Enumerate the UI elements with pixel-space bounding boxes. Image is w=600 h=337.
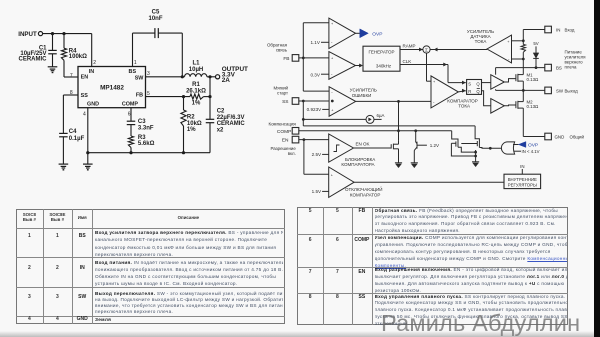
- svg-text:РЕГУЛЯТОРЫ: РЕГУЛЯТОРЫ: [508, 182, 537, 187]
- svg-text:COMP: COMP: [277, 129, 291, 135]
- svg-text:2.5V: 2.5V: [312, 152, 322, 157]
- svg-text:+: +: [331, 57, 334, 61]
- svg-text:+: +: [331, 173, 334, 177]
- svg-text:УСИЛИТЕЛЬ: УСИЛИТЕЛЬ: [350, 87, 377, 92]
- svg-text:0.3V: 0.3V: [310, 72, 320, 77]
- svg-text:1.2V: 1.2V: [430, 143, 439, 148]
- svg-text:EN: EN: [282, 138, 289, 144]
- svg-text:Выход: Выход: [565, 88, 579, 93]
- svg-text:OVP: OVP: [528, 142, 538, 148]
- svg-text:EN OK: EN OK: [356, 141, 370, 146]
- svg-text:10kΩ: 10kΩ: [187, 121, 202, 127]
- svg-text:-: -: [331, 40, 333, 45]
- svg-text:FB: FB: [283, 56, 289, 62]
- svg-text:3: 3: [147, 71, 150, 77]
- svg-text:ГЕНЕРАТОР: ГЕНЕРАТОР: [368, 50, 394, 55]
- svg-text:-: -: [331, 72, 333, 77]
- svg-text:КОМПАРАТОРА: КОМПАРАТОРА: [341, 162, 374, 167]
- svg-text:6µA: 6µA: [377, 113, 385, 118]
- svg-text:5.6kΩ: 5.6kΩ: [138, 141, 155, 147]
- svg-text:Q: Q: [476, 81, 480, 86]
- svg-text:IN: IN: [520, 164, 524, 169]
- svg-text:OVP: OVP: [372, 31, 382, 37]
- svg-text:старт: старт: [277, 90, 288, 95]
- svg-text:0.13Ω: 0.13Ω: [527, 104, 540, 109]
- svg-text:BS: BS: [556, 66, 562, 71]
- svg-text:CLK: CLK: [403, 59, 412, 64]
- svg-text:BS: BS: [129, 69, 137, 75]
- svg-text:10µH: 10µH: [189, 67, 203, 73]
- svg-text:Компенсация: Компенсация: [269, 121, 297, 126]
- svg-text:ТОКА: ТОКА: [475, 39, 487, 44]
- svg-text:0.13Ω: 0.13Ω: [527, 77, 540, 82]
- svg-text:GND: GND: [555, 134, 565, 139]
- svg-text:Вход: Вход: [565, 27, 575, 32]
- svg-text:Σ: Σ: [425, 48, 428, 54]
- svg-text:MP1482: MP1482: [100, 84, 124, 91]
- svg-text:5V: 5V: [533, 41, 538, 46]
- svg-text:R1: R1: [192, 82, 200, 88]
- svg-text:1.5V: 1.5V: [312, 189, 322, 194]
- svg-text:IN: IN: [556, 27, 560, 32]
- svg-text:INPUT: INPUT: [18, 31, 37, 38]
- svg-text:COMP: COMP: [122, 101, 139, 107]
- svg-text:R: R: [468, 89, 471, 94]
- svg-text:1: 1: [134, 60, 137, 66]
- svg-text:EN: EN: [81, 75, 89, 81]
- svg-text:ОШИБКИ: ОШИБКИ: [352, 93, 372, 98]
- svg-text:IN: IN: [89, 69, 94, 75]
- svg-text:R2: R2: [187, 114, 195, 120]
- svg-text:C3: C3: [138, 119, 146, 125]
- svg-text:100kΩ: 100kΩ: [69, 54, 87, 60]
- svg-text:ТОКА: ТОКА: [458, 103, 470, 108]
- svg-text:C2: C2: [217, 108, 225, 114]
- svg-text:-: -: [433, 99, 435, 104]
- svg-text:FB: FB: [136, 93, 143, 99]
- svg-text:4: 4: [83, 111, 86, 117]
- svg-text:C5: C5: [152, 9, 160, 15]
- svg-text:+: +: [331, 22, 334, 26]
- svg-text:+: +: [331, 109, 334, 113]
- svg-text:340kHz: 340kHz: [376, 63, 392, 68]
- svg-text:+: +: [507, 40, 510, 44]
- svg-text:SW: SW: [556, 88, 564, 93]
- svg-text:7: 7: [70, 73, 73, 79]
- svg-text:Общий: Общий: [570, 134, 585, 139]
- svg-text:CERAMIC: CERAMIC: [217, 121, 246, 127]
- svg-text:SS: SS: [282, 99, 288, 105]
- svg-text:2A: 2A: [222, 77, 231, 84]
- svg-text:S: S: [468, 81, 471, 86]
- svg-text:вкл.: вкл.: [288, 151, 296, 156]
- svg-text:C4: C4: [69, 129, 77, 135]
- svg-text:+: +: [433, 80, 436, 84]
- svg-text:КОМПАРАТОР: КОМПАРАТОР: [350, 192, 380, 197]
- svg-text:22µF/6.3V: 22µF/6.3V: [217, 115, 245, 121]
- svg-text:CERAMIC: CERAMIC: [19, 57, 48, 63]
- svg-text:26.1kΩ: 26.1kΩ: [186, 89, 206, 95]
- svg-text:-: -: [331, 90, 333, 95]
- svg-text:1.1V: 1.1V: [310, 40, 320, 45]
- svg-text:x2: x2: [217, 128, 224, 134]
- svg-text:связь: связь: [276, 48, 288, 53]
- svg-text:SS: SS: [81, 93, 89, 99]
- svg-text:R3: R3: [138, 135, 146, 141]
- svg-text:6: 6: [128, 111, 131, 117]
- svg-text:GND: GND: [87, 101, 99, 107]
- svg-text:плеча: плеча: [565, 65, 578, 70]
- svg-text:0.1µF: 0.1µF: [69, 136, 85, 142]
- svg-text:1%: 1%: [192, 101, 201, 107]
- svg-text:L1: L1: [192, 61, 200, 67]
- svg-text:RAMP: RAMP: [403, 44, 416, 49]
- svg-text:10nF: 10nF: [148, 16, 162, 22]
- svg-text:ВНУТРЕННИЕ: ВНУТРЕННИЕ: [508, 177, 537, 182]
- svg-text:0.923V: 0.923V: [307, 107, 322, 112]
- svg-text:IN < 4.1V: IN < 4.1V: [522, 149, 540, 154]
- svg-text:1%: 1%: [187, 127, 196, 133]
- svg-text:SW: SW: [135, 76, 145, 82]
- svg-text:3.3nF: 3.3nF: [138, 125, 154, 131]
- svg-text:2: 2: [93, 60, 96, 66]
- svg-text:ОТКЛЮЧАЮЩИЙ: ОТКЛЮЧАЮЩИЙ: [345, 185, 382, 192]
- svg-text:Q: Q: [476, 89, 480, 94]
- svg-text:-: -: [508, 57, 510, 62]
